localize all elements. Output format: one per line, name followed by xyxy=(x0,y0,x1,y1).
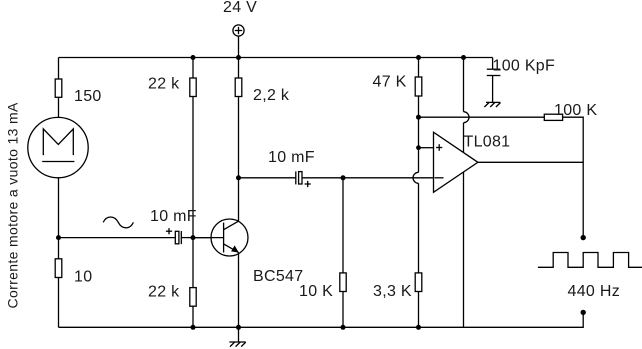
wire collector node to transistor xyxy=(238,178,240,221)
wire capacitor C3 to ground xyxy=(492,76,494,103)
svg-text:150: 150 xyxy=(74,88,102,105)
svg-text:BC547: BC547 xyxy=(253,268,303,285)
wire bottom rail xyxy=(59,312,584,327)
node junction top rail x=418.5 xyxy=(416,55,421,60)
wire hop to 3,3K xyxy=(418,183,420,273)
wire 22k lower branch xyxy=(192,238,194,288)
resistor 10 xyxy=(55,259,62,278)
resistor 2,2k xyxy=(235,78,242,97)
svg-text:10 mF: 10 mF xyxy=(268,149,315,166)
resistor 3,3K xyxy=(415,273,422,292)
wire left branch top xyxy=(58,58,60,80)
wire 22k upper to cap node xyxy=(192,97,194,238)
ground under transistor xyxy=(229,342,245,347)
svg-text:Corrente motore a vuoto 13 mA: Corrente motore a vuoto 13 mA xyxy=(5,102,21,309)
wire collector node to capacitor C2 xyxy=(239,177,296,179)
node junction top rail x=193 xyxy=(191,55,196,60)
svg-text:10 K: 10 K xyxy=(299,283,333,300)
svg-text:22 k: 22 k xyxy=(148,284,180,301)
svg-text:10 mF: 10 mF xyxy=(150,208,197,225)
wire AC node to capacitor C1 xyxy=(59,237,176,239)
node junction top rail x=238.5 xyxy=(236,55,241,60)
wire opamp supply from top rail xyxy=(463,58,465,112)
wire motor to AC node xyxy=(58,178,60,238)
wire resistor 10 to bottom rail xyxy=(58,278,60,328)
capacitor C1 10mF plus sign xyxy=(166,228,172,234)
svg-text:2,2 k: 2,2 k xyxy=(253,87,290,104)
node terminal output top xyxy=(581,235,586,240)
ground under capacitor C3 xyxy=(484,102,500,107)
wire emitter to bottom rail xyxy=(238,252,240,327)
svg-text:24 V: 24 V xyxy=(223,0,257,16)
resistor 150 xyxy=(55,79,62,97)
wire 47K branch top xyxy=(418,58,420,78)
node junction plus input x=418.5 y=146.5 xyxy=(416,145,421,150)
resistor 22k lower xyxy=(190,288,196,307)
node junction collector x=238.5 y=178 xyxy=(236,175,241,180)
wire 47K to feedback node xyxy=(418,96,420,117)
wire plus node down to hop xyxy=(418,148,420,173)
wire plus input stub xyxy=(419,147,434,149)
wire 2,2k to collector node xyxy=(238,97,240,178)
svg-text:47 K: 47 K xyxy=(373,74,407,91)
capacitor C1 10mF plates xyxy=(175,231,181,244)
capacitor C3 100KpF plates xyxy=(487,69,501,75)
capacitor C2 10mF plates xyxy=(296,171,302,184)
transistor Q1 BC547 xyxy=(193,219,248,256)
wire capacitor C1 to base node xyxy=(181,237,193,239)
node junction emitter bottom rail xyxy=(236,325,241,330)
wire 2,2k branch top xyxy=(238,58,240,79)
resistor 10K xyxy=(340,273,346,292)
node junction feedback x=418.5 y=117.2 xyxy=(416,115,421,120)
svg-text:100 K: 100 K xyxy=(554,102,597,119)
node junction bottom rail x=418.5 xyxy=(416,325,421,330)
svg-text:TL081: TL081 xyxy=(464,134,511,151)
wire 3,3K to bottom rail xyxy=(418,292,420,328)
wire 22k upper branch top xyxy=(192,58,194,79)
op-amp plus input marker xyxy=(436,144,442,151)
AC sine symbol xyxy=(103,217,133,228)
wire hop over minus line at x=418.5 xyxy=(413,172,419,183)
wire base node to transistor base xyxy=(193,237,224,239)
node junction left x=58.5 y=237.6 xyxy=(56,235,61,240)
wire opamp supply down through opamp to bottom rail xyxy=(463,123,465,328)
op-amp minus input marker xyxy=(435,177,444,179)
motor M xyxy=(28,117,88,177)
resistor 100K xyxy=(544,114,562,120)
wire capacitor C2 to 10K node xyxy=(302,177,343,179)
wire 22k lower to bottom rail xyxy=(192,306,194,327)
svg-text:10: 10 xyxy=(74,269,92,286)
wire resistor 150 to motor xyxy=(58,97,60,117)
resistor 22k upper xyxy=(190,78,196,97)
resistor 47K xyxy=(415,77,422,96)
supply V1 24V wire stub xyxy=(238,36,240,57)
node junction x=343 y=178 xyxy=(341,175,346,180)
node junction bottom rail x=343 xyxy=(341,325,346,330)
wire feedback line horizontal xyxy=(419,116,545,118)
wire emitter node to ground xyxy=(238,327,240,342)
wire 10K branch xyxy=(342,178,344,273)
node terminal output bottom xyxy=(581,310,586,315)
node junction base x=193 y=237.6 xyxy=(191,235,196,240)
square wave symbol xyxy=(538,253,642,268)
svg-text:100 KpF: 100 KpF xyxy=(493,57,556,74)
wire top rail xyxy=(59,57,493,59)
wire AC node to resistor 10 xyxy=(58,238,60,259)
wire 10K node to opamp minus input (passes under hop) xyxy=(343,177,434,179)
wire top rail corner to capacitor C3 xyxy=(492,58,494,70)
supply V1 24V circle with plus xyxy=(233,25,244,36)
wire feedback node to plus input node xyxy=(418,117,420,148)
wire hop over feedback line at x=463.5 xyxy=(464,112,470,123)
node junction top rail x=463.5 xyxy=(461,55,466,60)
wire opamp output xyxy=(478,161,583,163)
wire 10K to bottom rail xyxy=(342,292,344,328)
svg-text:440 Hz: 440 Hz xyxy=(568,283,621,300)
node junction bottom rail x=193 xyxy=(191,325,196,330)
op-amp U1 TL081 triangle xyxy=(434,132,478,192)
wire 100K to output branch xyxy=(563,117,584,237)
capacitor C2 plus sign xyxy=(305,181,311,187)
svg-text:3,3 K: 3,3 K xyxy=(373,283,412,300)
svg-text:22 k: 22 k xyxy=(148,76,180,93)
